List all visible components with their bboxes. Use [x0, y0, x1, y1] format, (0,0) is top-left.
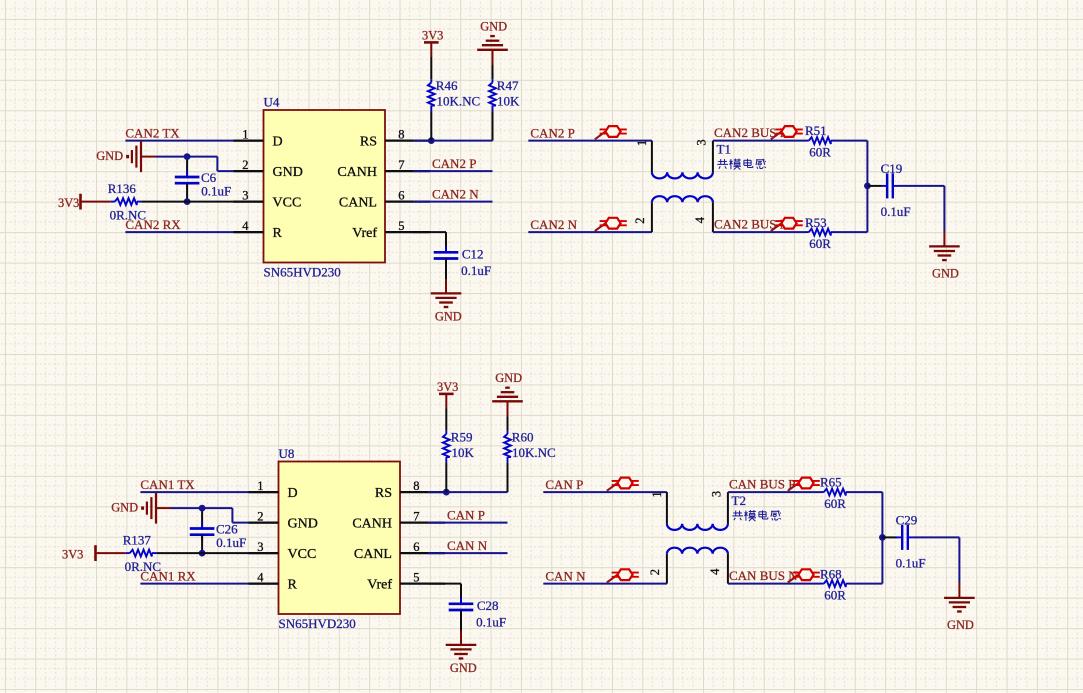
svg-text:CANH: CANH: [337, 165, 377, 180]
svg-text:CAN2 N: CAN2 N: [530, 217, 577, 232]
capacitor C12: [434, 246, 459, 265]
net label CAN N (pin 6): [447, 538, 488, 553]
svg-text:0.1uF: 0.1uF: [201, 184, 231, 199]
pin 5 (Vref) of U8: [367, 570, 445, 592]
svg-text:CAN N: CAN N: [545, 568, 586, 583]
net label CAN1 RX: [140, 568, 196, 583]
label R59: [451, 430, 473, 445]
pin 4 (R) of U8: [249, 570, 298, 592]
svg-text:GND: GND: [96, 149, 123, 163]
label C28: [477, 598, 499, 613]
label 共模电感 of T1: [717, 159, 766, 170]
svg-text:CAN2 P: CAN2 P: [432, 156, 476, 171]
label R65: [820, 475, 842, 490]
pin 2 of T1: [633, 217, 647, 223]
net label CAN N (bus input): [545, 568, 586, 583]
value 0R.NC of R136: [110, 208, 146, 223]
svg-text:R65: R65: [820, 475, 842, 490]
resistor R60 column: [507, 403, 509, 493]
svg-text:GND: GND: [288, 516, 318, 531]
value 0.1uF of C28: [476, 615, 506, 630]
svg-text:CANL: CANL: [354, 547, 392, 562]
value 60R of R65: [824, 496, 846, 511]
svg-text:60R: 60R: [809, 236, 831, 251]
svg-text:C6: C6: [201, 170, 217, 185]
svg-text:3V3: 3V3: [58, 196, 79, 210]
pin 3 (VCC) of U8: [249, 540, 317, 562]
pin 2 (GND) of U8: [249, 509, 318, 531]
wire terminator vertical node: [881, 492, 883, 583]
wire CAN2 TX net to pin 1: [125, 140, 263, 142]
resistor R47 leads: [492, 79, 494, 111]
junction RS wire / R46: [428, 137, 435, 144]
svg-text:3V3: 3V3: [62, 548, 83, 562]
wire CAN2 RX net to pin 4: [125, 231, 263, 233]
junction RS wire / R59: [443, 489, 450, 496]
svg-text:CAN BUS P: CAN BUS P: [729, 477, 795, 492]
label R46: [436, 78, 458, 93]
net label CAN BUS N: [729, 568, 798, 583]
wire CAN P into transformer: [543, 491, 667, 493]
svg-text:CAN2 N: CAN2 N: [432, 187, 479, 202]
wire R65 to terminator node: [850, 491, 883, 493]
wire CAN1 RX net to pin 4: [140, 583, 278, 585]
capacitor C19: [881, 173, 899, 198]
pin 8 (RS) of U4: [360, 127, 430, 149]
value 60R of R68: [824, 588, 846, 603]
svg-text:GND: GND: [480, 20, 507, 34]
part number SN65HVD230 of U8: [279, 616, 356, 631]
svg-text:6: 6: [413, 540, 419, 554]
svg-text:C28: C28: [477, 598, 499, 613]
wire pin 7 (CANH) net CAN P: [428, 522, 508, 524]
ground GND (below C28): [446, 645, 477, 675]
ground GND (left, sideways): [111, 493, 156, 524]
label R47: [497, 78, 519, 93]
pin 7 (CANH) of U8: [352, 509, 445, 531]
svg-text:10K: 10K: [497, 93, 520, 108]
pin 3 (VCC) of U4: [234, 188, 302, 210]
svg-text:R136: R136: [108, 181, 137, 196]
pin 6 (CANL) of U4: [339, 188, 430, 210]
svg-text:VCC: VCC: [288, 547, 317, 562]
wire R53 to terminator node: [835, 231, 868, 233]
svg-text:R51: R51: [805, 123, 827, 138]
wire R136 to pin 3: [142, 201, 264, 203]
svg-text:Vref: Vref: [352, 226, 377, 241]
svg-text:GND: GND: [111, 500, 138, 514]
svg-text:0.1uF: 0.1uF: [461, 263, 491, 278]
pin 2 of T2: [648, 569, 662, 575]
svg-text:T1: T1: [717, 142, 731, 157]
pin 8 (RS) of U8: [375, 479, 445, 501]
op-amp/transceiver IC U8 SN65HVD230 body: [279, 462, 401, 615]
capacitor C6 vertical wire top: [186, 157, 188, 177]
junction terminator / C19: [864, 183, 871, 190]
diff pair directive on CAN2 N: [595, 218, 627, 231]
svg-text:3V3: 3V3: [422, 29, 443, 43]
label R51: [805, 123, 827, 138]
value 0.1uF of C26: [216, 535, 246, 550]
diff pair directive on CAN2 BUS P: [771, 126, 803, 139]
svg-text:CAN1 TX: CAN1 TX: [140, 477, 195, 492]
resistor R46 column: [430, 44, 432, 141]
svg-text:D: D: [288, 486, 298, 501]
transformer T1 winding 1 (top): [652, 141, 713, 179]
svg-text:SN65HVD230: SN65HVD230: [264, 264, 341, 279]
junction at GND wire / C26: [199, 505, 206, 512]
pin 4 of T2: [708, 568, 722, 575]
svg-text:3: 3: [242, 188, 248, 202]
pin 3 of T2: [709, 491, 723, 497]
junction at VCC wire / C6: [184, 198, 191, 205]
svg-text:CAN2 P: CAN2 P: [530, 125, 574, 140]
svg-text:C26: C26: [216, 521, 238, 536]
svg-text:CAN N: CAN N: [447, 538, 488, 553]
junction at VCC wire / C26: [199, 550, 206, 557]
svg-text:1: 1: [635, 140, 649, 146]
capacitor C26 vertical wire bottom: [201, 535, 203, 553]
value 60R of R51: [809, 145, 831, 160]
diff pair directive on CAN N: [607, 569, 639, 582]
resistor R47: [489, 83, 496, 106]
svg-text:7: 7: [413, 509, 419, 523]
value 10K.NC of R46: [437, 93, 481, 108]
ground GND (below C12): [431, 293, 462, 323]
part number SN65HVD230 of U4: [264, 264, 341, 279]
svg-text:R53: R53: [805, 215, 827, 230]
ground GND (bus terminator): [944, 598, 975, 632]
resistor R46: [428, 83, 435, 106]
ground GND (left, sideways): [96, 141, 141, 172]
label R53: [805, 215, 827, 230]
svg-text:10K.NC: 10K.NC: [437, 93, 481, 108]
wire pin 8 (RS) to pull resistors: [413, 140, 493, 142]
power port 3V3 (above R59): [437, 380, 458, 394]
pin 5 (Vref) of U4: [352, 219, 430, 241]
wire pin 6 (CANL) net CAN N: [428, 552, 508, 554]
svg-text:GND: GND: [435, 310, 462, 324]
designator U4: [264, 95, 280, 110]
wire down to pin 2: [232, 508, 278, 522]
svg-text:CAN2 TX: CAN2 TX: [125, 125, 180, 140]
net label CAN2 N (bus input): [530, 217, 577, 232]
value 10K.NC of R60: [512, 445, 556, 460]
wire 3V3 to R137: [97, 552, 126, 554]
svg-text:R68: R68: [820, 566, 842, 581]
svg-text:R46: R46: [436, 78, 458, 93]
power port 3V3 (left): [58, 194, 81, 211]
label C6: [201, 170, 217, 185]
svg-text:2: 2: [257, 509, 263, 523]
svg-text:VCC: VCC: [273, 195, 302, 210]
resistor R59: [443, 434, 450, 457]
pin 1 of T2: [650, 491, 664, 497]
svg-text:1: 1: [650, 491, 664, 497]
svg-text:CAN BUS N: CAN BUS N: [729, 568, 798, 583]
wire terminator vertical node: [866, 141, 868, 233]
label R68: [820, 566, 842, 581]
svg-text:RS: RS: [375, 486, 392, 501]
capacitor C6: [175, 171, 200, 190]
transformer T2 winding 1 (top): [667, 492, 728, 530]
svg-text:RS: RS: [360, 134, 377, 149]
wire pin 6 (CANL) net CAN2 N: [413, 201, 493, 203]
wire pin 5 (Vref) to C12: [413, 232, 446, 252]
diff pair directive on CAN BUS P: [788, 478, 820, 491]
value 60R of R53: [809, 236, 831, 251]
svg-text:3V3: 3V3: [437, 380, 458, 394]
svg-text:0.1uF: 0.1uF: [476, 615, 506, 630]
value 0R.NC of R137: [125, 559, 161, 574]
wire R51 to terminator node: [835, 140, 868, 142]
diff pair directive on CAN P: [607, 478, 639, 491]
svg-text:5: 5: [398, 219, 404, 233]
capacitor C26: [190, 522, 215, 541]
net label CAN P (pin 7): [447, 508, 485, 523]
svg-text:GND: GND: [932, 267, 959, 281]
label R137: [123, 533, 152, 548]
svg-text:2: 2: [648, 569, 662, 575]
resistor R60 leads: [507, 431, 509, 463]
svg-text:CAN P: CAN P: [545, 477, 583, 492]
svg-text:GND: GND: [947, 618, 974, 632]
svg-text:U4: U4: [264, 95, 280, 110]
wire CAN2 BUS N row: [713, 231, 805, 233]
wire R68 to terminator node: [850, 583, 883, 585]
wire CAN BUS N row: [728, 583, 820, 585]
wire CAN BUS P row: [728, 491, 820, 493]
wire C29 to GND: [914, 537, 960, 597]
power port 3V3 (above R46): [422, 29, 443, 43]
svg-text:2: 2: [242, 158, 248, 172]
net label CAN2 N (pin 6): [432, 187, 479, 202]
net label CAN BUS P: [729, 477, 795, 492]
label C29: [896, 512, 918, 527]
wire pin 5 (Vref) to C28: [428, 584, 461, 604]
net label CAN2 RX: [125, 217, 181, 232]
pin 3 of T1: [694, 139, 708, 145]
ground GND (above R47): [477, 20, 508, 50]
wire 3V3 to R136: [82, 201, 111, 203]
wire C28 to GND: [460, 610, 462, 645]
svg-text:2: 2: [633, 217, 647, 223]
value 10K of R47: [497, 93, 520, 108]
svg-text:7: 7: [398, 158, 404, 172]
wire node to C29: [882, 536, 896, 538]
label C12: [462, 246, 484, 261]
wire CAN2 P into transformer: [528, 140, 652, 142]
capacitor C26 vertical wire top: [201, 508, 203, 528]
resistor R59 leads: [445, 431, 447, 463]
wire R137 to pin 3: [157, 552, 279, 554]
wire GND to C gnd junction: [156, 507, 232, 509]
wire CAN N into transformer: [543, 583, 667, 585]
svg-text:4: 4: [257, 570, 264, 584]
wire CAN2 BUS P row: [713, 140, 805, 142]
label R60: [512, 430, 534, 445]
svg-text:CANH: CANH: [352, 516, 392, 531]
svg-text:60R: 60R: [824, 496, 846, 511]
capacitor C28: [449, 597, 474, 616]
pin 6 (CANL) of U8: [354, 540, 445, 562]
label C26: [216, 521, 238, 536]
wire node to C19: [867, 185, 881, 187]
wire pin 8 (RS) to pull resistors: [428, 491, 508, 493]
svg-text:R47: R47: [497, 78, 519, 93]
svg-text:SN65HVD230: SN65HVD230: [279, 616, 356, 631]
designator U8: [279, 446, 295, 461]
label 共模电感 of T2: [732, 510, 781, 521]
svg-text:10K.NC: 10K.NC: [512, 445, 556, 460]
wire CAN1 TX net to pin 1: [140, 491, 278, 493]
net label CAN P (bus input): [545, 477, 583, 492]
net label CAN1 TX: [140, 477, 195, 492]
resistor R47 column: [492, 51, 494, 141]
diff pair directive on CAN BUS N: [788, 569, 820, 582]
value 0.1uF of C19: [881, 204, 911, 219]
wire GND to C gnd junction: [141, 156, 217, 158]
capacitor C29: [896, 525, 914, 550]
svg-text:GND: GND: [450, 661, 477, 675]
svg-text:GND: GND: [273, 165, 303, 180]
ground GND (bus terminator): [929, 246, 960, 280]
svg-text:1: 1: [242, 127, 248, 141]
svg-text:10K: 10K: [452, 445, 475, 460]
svg-text:R59: R59: [451, 430, 473, 445]
net label CAN2 P (pin 7): [432, 156, 476, 171]
svg-text:1: 1: [257, 479, 263, 493]
svg-text:3: 3: [709, 491, 723, 497]
svg-text:Vref: Vref: [367, 577, 392, 592]
pin 4 of T1: [693, 216, 707, 223]
svg-text:0.1uF: 0.1uF: [896, 555, 926, 570]
value 0.1uF of C12: [461, 263, 491, 278]
svg-text:4: 4: [708, 568, 722, 575]
resistor R60: [504, 434, 511, 457]
ground GND (above R60): [492, 371, 523, 401]
resistor R137: [126, 550, 157, 557]
svg-text:CAN2 RX: CAN2 RX: [125, 217, 181, 232]
designator T1: [717, 142, 731, 157]
resistor R59 column: [445, 395, 447, 492]
svg-text:8: 8: [413, 479, 419, 493]
svg-text:R137: R137: [123, 533, 152, 548]
svg-text:CAN1 RX: CAN1 RX: [140, 568, 196, 583]
svg-text:4: 4: [242, 219, 249, 233]
svg-text:60R: 60R: [824, 588, 846, 603]
junction terminator / C29: [879, 534, 886, 541]
net label CAN2 TX: [125, 125, 180, 140]
svg-text:5: 5: [413, 570, 419, 584]
svg-text:C29: C29: [896, 512, 918, 527]
op-amp/transceiver IC U4 SN65HVD230 body: [264, 110, 386, 263]
resistor R136: [111, 198, 142, 205]
transformer T2 winding 2 (bottom): [667, 548, 728, 584]
svg-text:R: R: [288, 577, 298, 592]
svg-text:60R: 60R: [809, 145, 831, 160]
net label CAN2 BUS N: [714, 217, 790, 232]
svg-text:CAN P: CAN P: [447, 508, 485, 523]
wire C12 to GND: [445, 259, 447, 294]
wire down to pin 2: [217, 157, 263, 172]
net label CAN2 BUS P: [714, 125, 787, 140]
svg-text:CAN2 BUS N: CAN2 BUS N: [714, 217, 790, 232]
svg-text:D: D: [273, 134, 283, 149]
svg-text:GND: GND: [495, 371, 522, 385]
pin 2 (GND) of U4: [234, 158, 303, 180]
capacitor C6 vertical wire bottom: [186, 183, 188, 201]
svg-text:C19: C19: [881, 161, 903, 176]
svg-text:R60: R60: [512, 430, 534, 445]
svg-text:T2: T2: [732, 493, 746, 508]
label R136: [108, 181, 137, 196]
junction at GND wire / C6: [184, 153, 191, 160]
svg-text:4: 4: [693, 216, 707, 223]
wire pin 7 (CANH) net CAN2 P: [413, 170, 493, 172]
svg-text:0.1uF: 0.1uF: [881, 204, 911, 219]
wire CAN2 N into transformer: [528, 231, 652, 233]
diff pair directive on CAN2 BUS N: [771, 218, 803, 231]
pin 4 (R) of U4: [234, 219, 283, 241]
resistor R53: [805, 229, 835, 236]
svg-text:U8: U8: [279, 446, 295, 461]
designator T2: [732, 493, 746, 508]
svg-text:CANL: CANL: [339, 195, 377, 210]
wire C19 to GND: [899, 186, 945, 246]
svg-text:6: 6: [398, 188, 404, 202]
resistor R68: [820, 580, 850, 587]
svg-text:8: 8: [398, 127, 404, 141]
value 10K of R59: [452, 445, 475, 460]
pin 1 (D) of U8: [249, 479, 298, 501]
value 0.1uF of C29: [896, 555, 926, 570]
resistor R46 leads: [430, 79, 432, 111]
svg-text:0.1uF: 0.1uF: [216, 535, 246, 550]
svg-text:C12: C12: [462, 246, 484, 261]
pin 1 (D) of U4: [234, 127, 283, 149]
resistor R65: [820, 489, 850, 496]
svg-text:3: 3: [257, 540, 263, 554]
pin 1 of T1: [635, 140, 649, 146]
svg-text:R: R: [273, 226, 283, 241]
pin 7 (CANH) of U4: [337, 158, 430, 180]
diff pair directive on CAN2 P: [595, 126, 627, 139]
power port 3V3 (left): [62, 545, 96, 562]
svg-text:3: 3: [694, 139, 708, 145]
value 0.1uF of C6: [201, 184, 231, 199]
transformer T1 winding 2 (bottom): [652, 196, 713, 232]
label C19: [881, 161, 903, 176]
net label CAN2 P (bus input): [530, 125, 574, 140]
resistor R51: [805, 137, 835, 144]
